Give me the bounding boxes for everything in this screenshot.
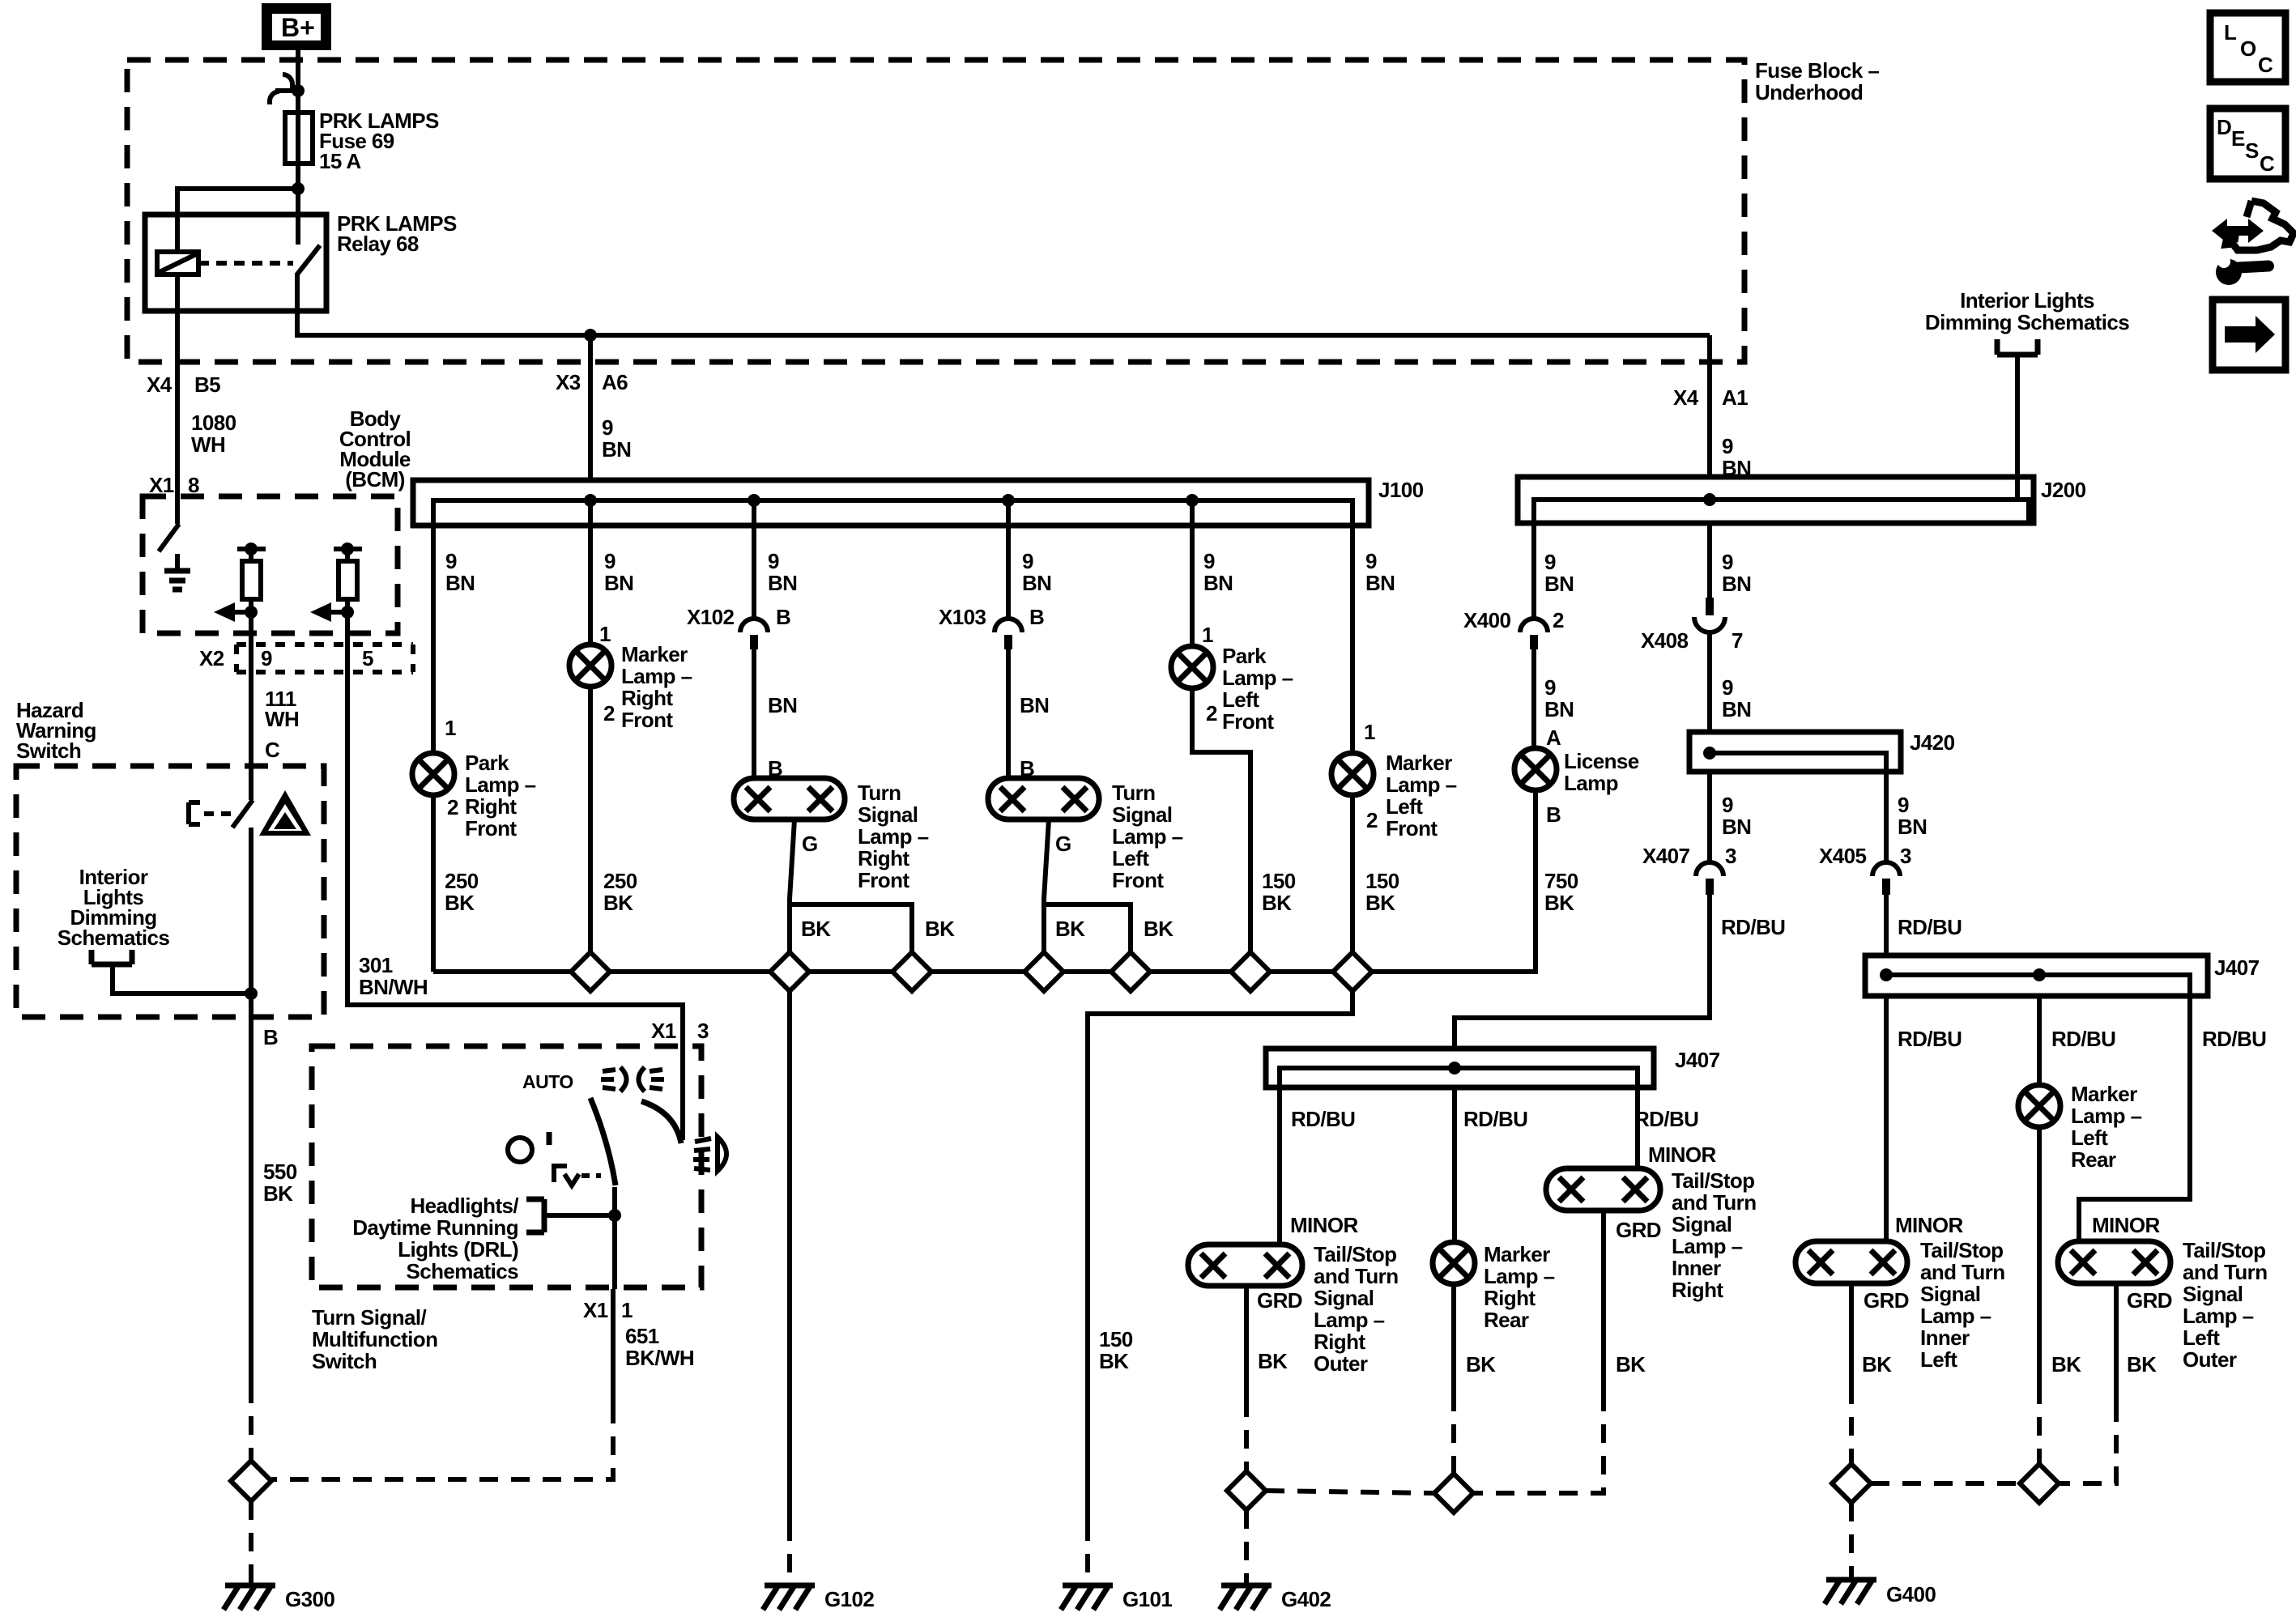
svg-text:License: License: [1564, 749, 1639, 773]
wire J100 tap6 to marker lamp left front: [1350, 500, 1355, 753]
svg-text:BK: BK: [445, 891, 475, 915]
wire X400 to license lamp: [1531, 649, 1536, 748]
svg-text:BK: BK: [1262, 891, 1292, 915]
wire feed down to J100: [588, 335, 593, 480]
dashed wire right outer to G402 splice: [1244, 1398, 1249, 1471]
icon part locator arrows: [2212, 201, 2294, 285]
dashed wire left outer to splice: [2059, 1403, 2116, 1483]
label Interior Lights Dimming Schematics (top right): [1925, 288, 2129, 334]
svg-text:BN: BN: [1203, 571, 1233, 595]
connector X400: [1520, 619, 1548, 649]
svg-text:BN: BN: [1722, 815, 1751, 839]
BCM output arrow 1: [214, 602, 258, 622]
svg-text:J100: J100: [1378, 478, 1424, 502]
svg-text:9: 9: [1898, 793, 1909, 817]
BCM driver output 2 (resistor): [334, 543, 362, 633]
svg-text:Dimming Schematics: Dimming Schematics: [1925, 310, 2129, 334]
svg-text:550: 550: [263, 1160, 297, 1184]
svg-text:Underhood: Underhood: [1755, 80, 1863, 104]
wire X405 to J407 right bar: [1884, 895, 1889, 955]
wire hazard switch lower to node B: [249, 828, 253, 1017]
svg-text:G102: G102: [824, 1587, 874, 1611]
svg-text:BN: BN: [1722, 572, 1751, 596]
node DRL tap: [608, 1209, 621, 1222]
svg-text:J200: J200: [2041, 478, 2086, 502]
svg-text:Marker: Marker: [1386, 751, 1452, 775]
svg-text:Park: Park: [1222, 644, 1267, 668]
label Tail/Stop and Turn Signal Lamp Left Outer: [2183, 1238, 2267, 1372]
splice diamond 7: [1333, 952, 1372, 991]
svg-text:BN/WH: BN/WH: [359, 975, 428, 999]
label Turn Signal Lamp Left Front: [1112, 781, 1183, 892]
dashed wire inner right to splice: [1473, 1393, 1604, 1493]
node J200 feed: [1703, 493, 1716, 506]
svg-text:Right: Right: [1484, 1286, 1536, 1310]
splice diamond above G300: [231, 1461, 271, 1501]
dashed box BCM: [143, 496, 398, 633]
svg-text:1: 1: [445, 716, 456, 740]
wire J407 mid tap1 to tail/stop right outer: [1277, 1087, 1282, 1245]
svg-text:Front: Front: [858, 868, 909, 892]
wire J100 tap4 to X103: [1006, 500, 1011, 619]
svg-text:BN: BN: [604, 571, 633, 595]
svg-text:BK: BK: [1258, 1349, 1288, 1373]
svg-text:X2: X2: [199, 646, 224, 670]
wire from X1 3 into switch: [680, 1046, 685, 1140]
svg-text:BK: BK: [1544, 891, 1574, 915]
svg-text:Fuse Block –: Fuse Block –: [1755, 58, 1879, 83]
node below fuse: [292, 182, 305, 195]
wire 550 BK down: [249, 1017, 253, 1385]
dashed wire inner left to G400 splice: [1849, 1385, 1854, 1464]
label Body Control Module (BCM): [339, 406, 411, 491]
svg-text:Switch: Switch: [312, 1349, 377, 1373]
lamp Marker Lamp Left Front: [1331, 753, 1374, 795]
lamp Tail/Stop and Turn Signal Lamp Inner Left: [1795, 1241, 1907, 1283]
svg-text:Signal: Signal: [1920, 1282, 1980, 1306]
label Tail/Stop and Turn Signal Lamp Inner Right: [1672, 1168, 1756, 1302]
svg-text:9: 9: [445, 549, 457, 573]
wire J407 mid tap3 to tail/stop inner right: [1635, 1087, 1640, 1168]
svg-text:Right: Right: [621, 686, 673, 710]
svg-text:BN: BN: [1544, 572, 1574, 596]
svg-text:1: 1: [621, 1298, 633, 1322]
svg-text:Front: Front: [1112, 868, 1164, 892]
svg-text:1: 1: [1202, 623, 1213, 647]
svg-text:9: 9: [261, 646, 272, 670]
svg-text:GRD: GRD: [1864, 1288, 1909, 1313]
svg-text:Lamp –: Lamp –: [1112, 824, 1183, 849]
tick mark: [547, 1132, 552, 1145]
wire J200 tap1 to X400: [1531, 500, 1536, 619]
svg-text:and Turn: and Turn: [2183, 1260, 2267, 1284]
wire J407 right tap1 to tail/stop inner left: [1884, 996, 1889, 1241]
svg-text:MINOR: MINOR: [1290, 1213, 1358, 1237]
svg-text:Multifunction: Multifunction: [312, 1327, 437, 1351]
svg-text:9: 9: [1544, 550, 1556, 574]
svg-text:G: G: [1055, 832, 1071, 856]
svg-text:BK: BK: [2127, 1352, 2157, 1377]
wire switch pole down: [612, 1187, 617, 1289]
svg-text:Outer: Outer: [2183, 1347, 2237, 1372]
wire J407 right tap2 to marker left rear: [2037, 996, 2042, 1085]
svg-text:B: B: [1546, 802, 1561, 827]
ground G300: [224, 1585, 275, 1610]
connector X102: [740, 619, 768, 649]
splice diamond marker left rear: [2020, 1464, 2059, 1503]
svg-text:9: 9: [604, 549, 616, 573]
BCM internal ground: [164, 554, 190, 589]
splice diamond 2: [770, 952, 809, 991]
svg-text:Signal: Signal: [1672, 1212, 1732, 1236]
lamp License Lamp: [1514, 748, 1557, 790]
svg-text:RD/BU: RD/BU: [1898, 1027, 1962, 1051]
svg-text:X4: X4: [147, 372, 173, 397]
svg-text:X4: X4: [1673, 385, 1699, 410]
svg-text:Lamp –: Lamp –: [1920, 1304, 1991, 1328]
label Marker Lamp Right Rear: [1484, 1242, 1555, 1332]
wire X103 to turn signal left front: [1006, 649, 1011, 778]
svg-text:Lights (DRL): Lights (DRL): [398, 1237, 518, 1262]
svg-text:(BCM): (BCM): [345, 467, 405, 491]
lamp Turn Signal Lamp Right Front: [734, 778, 845, 819]
svg-text:C: C: [265, 738, 280, 762]
wire J100 tap2 to marker lamp right front: [588, 500, 593, 645]
svg-text:9: 9: [1022, 549, 1033, 573]
wire turn RF ground leg: [790, 819, 794, 952]
svg-text:Lamp –: Lamp –: [858, 824, 929, 849]
svg-text:X408: X408: [1641, 628, 1688, 653]
wire J100 tap1 to park lamp right front: [431, 500, 436, 753]
svg-text:BN: BN: [1020, 693, 1049, 717]
relay switch contact arm: [296, 245, 320, 275]
svg-text:J407: J407: [2214, 955, 2260, 980]
wire X2 pin 9 down (111 WH): [249, 633, 253, 800]
splice diamond 6: [1231, 952, 1270, 991]
splice diamond 3: [892, 952, 931, 991]
svg-text:Signal: Signal: [1314, 1286, 1374, 1310]
bus bar J100: [413, 480, 1369, 526]
svg-text:RD/BU: RD/BU: [1898, 915, 1962, 939]
svg-text:and Turn: and Turn: [1920, 1260, 2004, 1284]
splice diamond right rear: [1434, 1474, 1473, 1513]
svg-text:Left: Left: [1386, 794, 1423, 819]
label Tail/Stop and Turn Signal Lamp Inner Left: [1920, 1238, 2004, 1372]
svg-text:BK: BK: [263, 1181, 293, 1206]
svg-text:Lamp –: Lamp –: [1672, 1234, 1743, 1258]
icon auto headlamp: [601, 1067, 664, 1091]
svg-text:Park: Park: [465, 751, 509, 775]
svg-text:X103: X103: [939, 605, 986, 629]
icon box LOC: [2210, 13, 2285, 82]
dashed wire to G101: [1085, 1522, 1090, 1585]
svg-text:Left: Left: [1222, 687, 1259, 712]
icon box DESC: [2210, 109, 2285, 179]
svg-text:Marker: Marker: [621, 642, 688, 666]
svg-text:Interior Lights: Interior Lights: [1960, 288, 2094, 313]
svg-text:X1: X1: [583, 1298, 608, 1322]
svg-text:Turn Signal/: Turn Signal/: [312, 1305, 426, 1330]
node J407 right feed: [1880, 968, 1893, 981]
svg-text:7: 7: [1732, 628, 1743, 653]
svg-text:C: C: [2260, 151, 2275, 176]
svg-text:Tail/Stop: Tail/Stop: [1920, 1238, 2003, 1262]
node J100 tap park left: [1186, 494, 1199, 507]
wire X408 to J420: [1707, 632, 1712, 732]
dashed wire G400 splice down: [1849, 1503, 1854, 1580]
node J100 tap X103: [1002, 494, 1015, 507]
wire J100 tap5 to park lamp left front: [1190, 500, 1195, 646]
svg-text:9: 9: [768, 549, 779, 573]
bracket to DRL schematics: [526, 1199, 615, 1232]
node J100 feed: [584, 494, 597, 507]
wire marker left rear down: [2037, 1127, 2042, 1385]
svg-text:3: 3: [697, 1019, 709, 1043]
dashed box Turn Signal / Multifunction Switch: [312, 1046, 701, 1287]
svg-text:BK: BK: [1144, 917, 1174, 941]
wire marker LF to ground bus: [1350, 795, 1355, 952]
svg-text:9: 9: [1203, 549, 1215, 573]
wire feed down to X4 A1: [1707, 335, 1712, 477]
hazard switch fixed contact: [189, 802, 231, 824]
splice diamond 1: [571, 952, 610, 991]
svg-text:AUTO: AUTO: [522, 1071, 573, 1092]
wire turn RF ground branch right: [790, 904, 912, 952]
BCM driver output 1 (resistor): [237, 543, 266, 633]
svg-text:RD/BU: RD/BU: [1291, 1107, 1355, 1131]
svg-text:BN: BN: [1544, 697, 1574, 721]
svg-text:Inner: Inner: [1672, 1256, 1721, 1280]
fuse PRK LAMPS Fuse 69 15A: [285, 113, 313, 164]
lamp Park Lamp Right Front: [412, 753, 454, 795]
svg-text:BK: BK: [1099, 1349, 1129, 1373]
svg-text:Right: Right: [1672, 1278, 1723, 1302]
bracket to interior lights dimming: [92, 950, 251, 994]
svg-text:Lamp –: Lamp –: [1314, 1308, 1385, 1332]
svg-text:BK: BK: [801, 917, 831, 941]
svg-text:BK: BK: [925, 917, 955, 941]
lamp Tail/Stop and Turn Signal Lamp Inner Right: [1546, 1168, 1660, 1211]
node J407 right marker tap: [2033, 968, 2046, 981]
svg-text:Signal: Signal: [1112, 802, 1172, 827]
svg-text:RD/BU: RD/BU: [2202, 1027, 2266, 1051]
svg-text:Left: Left: [2071, 1126, 2108, 1150]
svg-text:GRD: GRD: [1257, 1288, 1302, 1313]
svg-text:X102: X102: [687, 605, 734, 629]
svg-text:Daytime Running: Daytime Running: [352, 1215, 518, 1240]
svg-text:Lamp –: Lamp –: [621, 664, 692, 688]
svg-text:BK: BK: [1862, 1352, 1892, 1377]
svg-text:G300: G300: [285, 1587, 334, 1611]
wire relay coil to X4 B5: [175, 274, 180, 496]
svg-text:Lamp –: Lamp –: [1222, 666, 1293, 690]
svg-text:WH: WH: [265, 707, 299, 731]
svg-text:Signal: Signal: [2183, 1282, 2243, 1306]
svg-text:Schematics: Schematics: [406, 1259, 518, 1283]
wire GRD left outer down: [2114, 1283, 2119, 1403]
ground return bus wire: [433, 790, 1536, 972]
svg-text:G402: G402: [1281, 1587, 1331, 1611]
svg-text:Marker: Marker: [1484, 1242, 1550, 1266]
node X3 A6 branch: [584, 329, 597, 342]
icon park lamps position: [554, 1166, 579, 1185]
svg-text:Tail/Stop: Tail/Stop: [1314, 1242, 1396, 1266]
splice diamond G400: [1832, 1464, 1871, 1503]
wire J407 mid tap2 to marker right rear: [1452, 1087, 1457, 1242]
svg-text:651: 651: [625, 1324, 659, 1348]
wire 301 BN/WH from X2 pin 5: [347, 687, 683, 1046]
label Tail/Stop and Turn Signal Lamp Right Outer: [1314, 1242, 1398, 1376]
svg-text:2: 2: [447, 795, 458, 819]
wire turn LF ground branch right: [1044, 904, 1131, 952]
svg-text:BK: BK: [2051, 1352, 2081, 1377]
battery terminal B+: [262, 3, 331, 50]
label Marker Lamp Left Rear: [2071, 1082, 2142, 1172]
ground G102: [763, 1585, 815, 1610]
svg-text:BN: BN: [1898, 815, 1927, 839]
svg-text:9: 9: [1722, 793, 1733, 817]
label Marker Lamp Right Front: [621, 642, 692, 732]
splice diamond 4: [1024, 952, 1063, 991]
svg-text:RD/BU: RD/BU: [2051, 1027, 2115, 1051]
dashed wire splice to G300: [249, 1501, 253, 1585]
svg-text:250: 250: [445, 869, 479, 893]
label Hazard Warning Switch: [16, 698, 96, 763]
svg-text:O: O: [2240, 36, 2256, 61]
svg-text:3: 3: [1725, 844, 1736, 868]
svg-text:X407: X407: [1642, 844, 1689, 868]
node hazard to dimming: [245, 987, 258, 1000]
lamp Tail/Stop and Turn Signal Lamp Right Outer: [1188, 1245, 1302, 1286]
svg-text:BN: BN: [1722, 697, 1751, 721]
svg-text:1080: 1080: [191, 411, 236, 435]
svg-text:Lamp –: Lamp –: [2183, 1304, 2254, 1328]
svg-text:Relay 68: Relay 68: [337, 232, 419, 256]
wire park LF to ground bus: [1192, 688, 1250, 952]
svg-text:A1: A1: [1722, 385, 1748, 410]
ground G101: [1061, 1585, 1113, 1610]
svg-text:G: G: [802, 832, 818, 856]
svg-text:2: 2: [1553, 608, 1564, 632]
svg-text:Lamp: Lamp: [1564, 771, 1618, 795]
svg-text:J407: J407: [1675, 1048, 1720, 1072]
bus bar J407 mid: [1266, 1049, 1654, 1087]
svg-text:Lamp –: Lamp –: [465, 772, 536, 797]
wire from B+ down to fuse: [296, 50, 300, 113]
wire splice 7 to G101: [1088, 991, 1352, 1522]
svg-text:Right: Right: [465, 794, 517, 819]
bus bar J407 right: [1865, 955, 2208, 996]
svg-text:Front: Front: [465, 816, 517, 840]
svg-text:2: 2: [603, 701, 615, 726]
hazard switch arm: [232, 800, 253, 828]
dashed wire to G300 splice: [249, 1385, 253, 1461]
svg-text:GRD: GRD: [1616, 1218, 1661, 1242]
bus bar J420: [1689, 732, 1901, 772]
svg-text:RD/BU: RD/BU: [1463, 1107, 1527, 1131]
wire fuse to relay junction: [296, 164, 300, 245]
svg-text:BK: BK: [1055, 917, 1085, 941]
svg-text:E: E: [2231, 126, 2245, 151]
wire branch to relay coil: [177, 189, 298, 252]
svg-text:MINOR: MINOR: [1648, 1143, 1716, 1167]
svg-text:Rear: Rear: [1484, 1308, 1529, 1332]
node J420 feed: [1703, 747, 1716, 760]
wire relay switch output: [297, 274, 1710, 335]
dashed wire between G402 splices: [1266, 1491, 1434, 1493]
label Interior Lights Dimming Schematics (hazard box): [58, 865, 170, 950]
svg-text:X405: X405: [1819, 844, 1866, 868]
svg-text:Signal: Signal: [858, 802, 918, 827]
dashed link park position to arm: [581, 1173, 601, 1178]
svg-text:BN: BN: [445, 571, 475, 595]
multifunction switch arm: [590, 1098, 616, 1185]
wire turn LF ground leg: [1044, 819, 1049, 952]
svg-text:WH: WH: [191, 432, 225, 457]
svg-text:9: 9: [1722, 675, 1733, 700]
lamp Tail/Stop and Turn Signal Lamp Left Outer: [2058, 1241, 2170, 1283]
svg-text:2: 2: [1206, 701, 1217, 726]
dashed box Fuse Block - Underhood: [127, 60, 1744, 362]
hazard warning triangle icon: [259, 790, 311, 836]
connector X405: [1872, 862, 1900, 895]
bracket interior lights dimming to J200: [1997, 339, 2038, 497]
dashed wire from 651 BK/WH to G300 splice: [271, 1405, 613, 1479]
svg-text:150: 150: [1365, 869, 1399, 893]
svg-text:D: D: [2217, 115, 2232, 139]
relay PRK LAMPS Relay 68 box: [145, 215, 326, 311]
svg-text:BN: BN: [768, 693, 797, 717]
svg-text:1: 1: [599, 622, 611, 646]
svg-text:BN: BN: [1365, 571, 1395, 595]
label Park Lamp Right Front: [465, 751, 536, 840]
svg-text:L: L: [2224, 20, 2237, 45]
svg-text:MINOR: MINOR: [2092, 1213, 2160, 1237]
wire X407 to J407 mid bar: [1455, 895, 1710, 1049]
wire J407 right tap3 to tail/stop left outer: [2079, 996, 2190, 1241]
connector X408: [1694, 598, 1725, 632]
svg-text:301: 301: [359, 953, 393, 977]
svg-text:BN: BN: [768, 571, 797, 595]
wire 651 BK/WH: [611, 1289, 616, 1405]
relay coil: [157, 252, 198, 274]
switch rotor arc: [641, 1101, 681, 1143]
svg-text:9: 9: [1365, 549, 1377, 573]
svg-text:C: C: [2258, 53, 2273, 77]
dashed wire to G102: [787, 1522, 792, 1585]
BCM output arrow 2: [310, 602, 354, 622]
svg-text:X1: X1: [651, 1019, 676, 1043]
wire park right front to ground bus: [431, 795, 436, 972]
svg-text:Headlights/: Headlights/: [410, 1194, 518, 1218]
connector clip symbol on B+ feed: [270, 74, 305, 104]
label License Lamp: [1564, 749, 1639, 795]
splice diamond 5: [1111, 952, 1150, 991]
wire marker right rear down: [1451, 1284, 1456, 1393]
svg-text:Front: Front: [1222, 709, 1274, 734]
splice diamond G402: [1227, 1471, 1266, 1510]
svg-text:Left: Left: [1112, 846, 1149, 870]
svg-text:9: 9: [602, 415, 613, 440]
connector X407: [1696, 862, 1723, 895]
svg-text:Left: Left: [1920, 1347, 1957, 1372]
svg-text:1: 1: [1364, 720, 1375, 744]
lamp Park Lamp Left Front: [1171, 646, 1213, 688]
svg-text:Front: Front: [1386, 816, 1438, 840]
svg-text:Lamp –: Lamp –: [1386, 772, 1457, 797]
svg-text:B: B: [776, 605, 790, 629]
svg-text:2: 2: [1366, 808, 1378, 832]
